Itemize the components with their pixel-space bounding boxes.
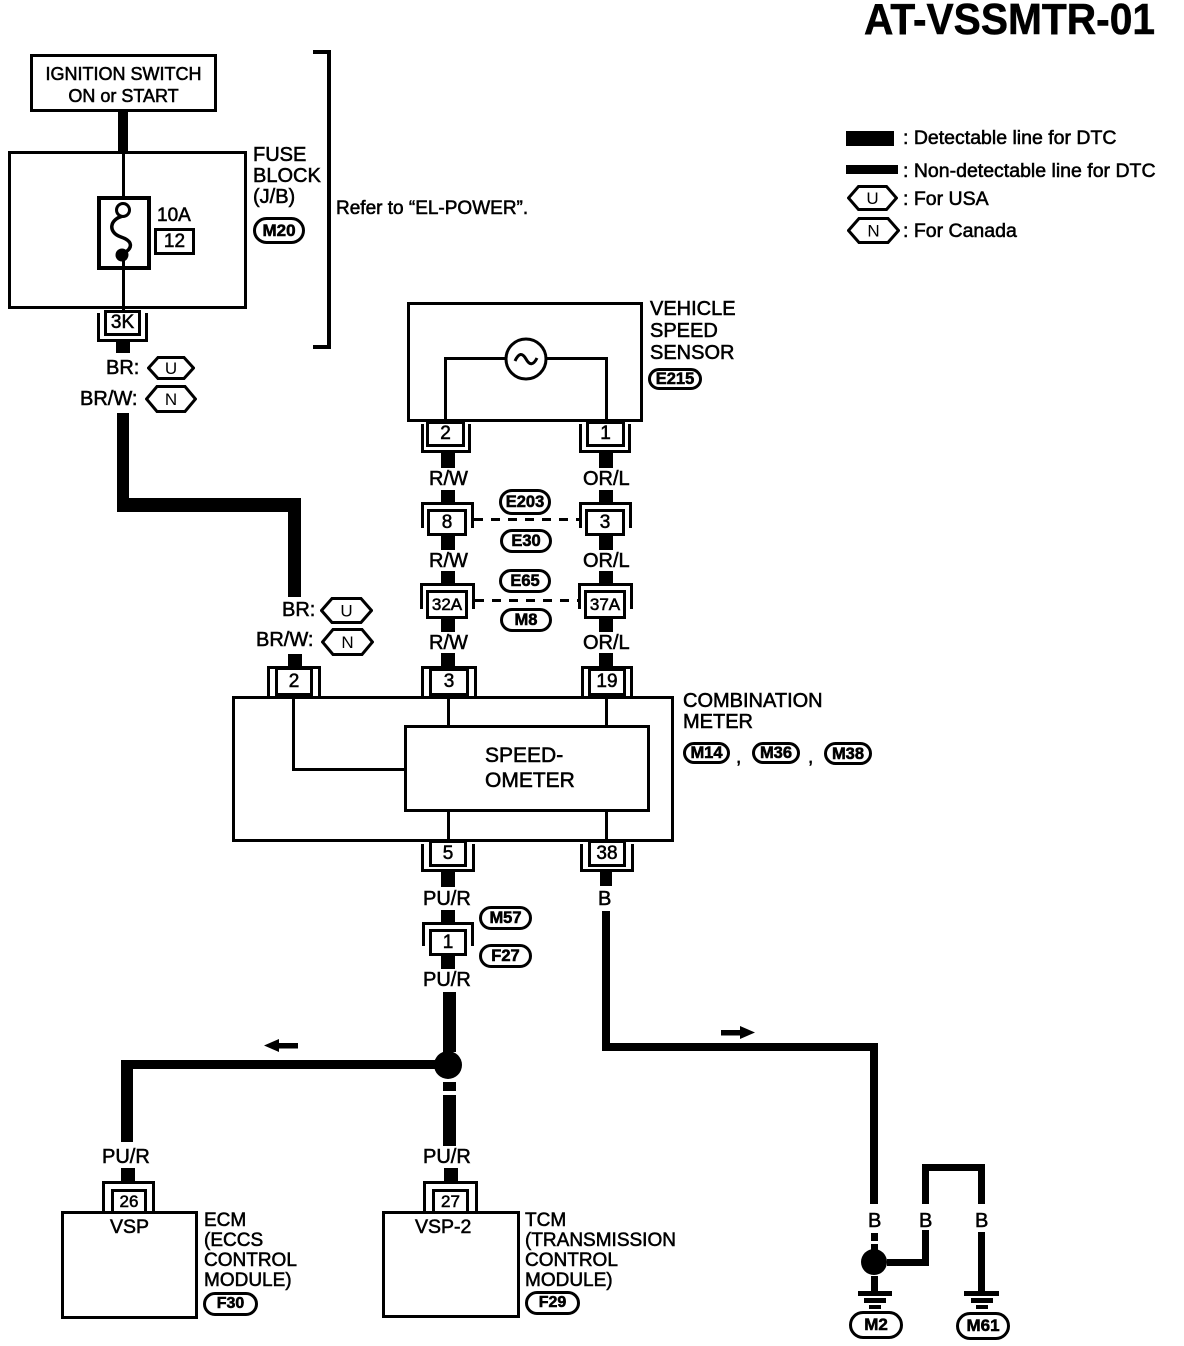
- wire stub below connector 32A: [441, 619, 455, 632]
- combination meter box: [232, 696, 674, 842]
- wire far right vertical upper: [978, 1171, 985, 1204]
- connector F30 oval: [203, 1292, 258, 1316]
- VSS internal wire right: [546, 357, 608, 360]
- label OR/L row2: [583, 551, 630, 571]
- wire BR/W horizontal elbow: [117, 498, 301, 512]
- connector 37A (E65/M8): [578, 583, 633, 609]
- wire PU/R trunk: [443, 992, 456, 1052]
- label B middle: [919, 1211, 932, 1231]
- svg-text:U: U: [866, 189, 878, 208]
- wire stub below connector 1: [441, 956, 455, 969]
- label R/W row2: [429, 551, 468, 571]
- label B right: [975, 1211, 988, 1231]
- svg-text:N: N: [867, 222, 879, 241]
- connector M8 oval: [500, 608, 552, 632]
- wire stub above pin 27: [444, 1168, 458, 1183]
- svg-text:N: N: [165, 390, 177, 409]
- note Refer to EL-POWER: [336, 199, 528, 219]
- label FUSE BLOCK (J/B): [253, 145, 321, 208]
- dashed link E65/M8: [475, 599, 578, 602]
- ground symbol M61: [964, 1291, 999, 1296]
- wire stub below connector 37A: [599, 619, 613, 632]
- wire ignition to fuse block (thick): [118, 112, 128, 152]
- label PU/R at TCM: [423, 1147, 471, 1167]
- wire dash below junction: [443, 1082, 456, 1091]
- connector F27 oval: [479, 944, 532, 968]
- label B left: [868, 1211, 881, 1231]
- fuse block M20 box: [8, 151, 247, 309]
- legend hexagon U: [847, 185, 898, 211]
- wire B vertical down to ground: [870, 1043, 878, 1204]
- arrow right: [719, 1026, 755, 1039]
- wire B horizontal: [602, 1043, 878, 1051]
- label VSP: [110, 1217, 149, 1237]
- ground junction node: [861, 1249, 887, 1275]
- speedometer box: [404, 725, 650, 812]
- wire dashes above junction: [871, 1233, 878, 1241]
- ground connector M2 oval: [849, 1311, 903, 1339]
- AC generator symbol: [503, 336, 549, 382]
- VSS internal wire left: [444, 357, 506, 360]
- legend non-detectable line: [846, 165, 898, 174]
- meter pin 19: [581, 666, 633, 696]
- wire stub above meter pin 3: [441, 653, 455, 667]
- wire pin2 to speedometer: [292, 696, 295, 771]
- ECM box: [61, 1211, 198, 1319]
- wire stub below pin 1: [599, 453, 613, 468]
- VSS pin 1: [579, 424, 631, 453]
- fuse number box 12: [154, 228, 195, 255]
- wire B from pin 38 down: [602, 911, 610, 1047]
- wire stub above meter pin 19: [599, 653, 613, 667]
- wire pin19 to speedometer: [605, 696, 608, 725]
- power source box IGNITION SWITCH: [30, 54, 217, 112]
- svg-text:N: N: [341, 633, 353, 652]
- label SPEED-OMETER: [485, 743, 575, 793]
- ECM pin 26: [102, 1181, 155, 1211]
- dashed link E203/E30: [474, 518, 579, 521]
- connector 3K: [97, 313, 148, 342]
- meter pin 3: [421, 666, 477, 696]
- connector E203 oval: [499, 489, 551, 515]
- wire stub above inline connector 1: [441, 910, 455, 924]
- wire speedometer to pin5: [447, 812, 450, 842]
- connector 32A (E65/M8): [420, 583, 475, 609]
- wire BR/W vertical (thick): [117, 413, 129, 505]
- bracket (refer note): [313, 50, 331, 349]
- label R/W row1: [429, 469, 468, 489]
- wire stub above connector 3: [599, 490, 613, 504]
- connector F29 oval: [525, 1291, 580, 1315]
- wire stub below pin 38 (B): [600, 872, 612, 886]
- hexagon N at meter: [321, 628, 374, 656]
- label B: [598, 889, 611, 909]
- wire right branch top horizontal: [922, 1164, 985, 1171]
- wire stub to meter pin 2: [288, 654, 302, 667]
- TCM pin 27: [423, 1181, 478, 1211]
- fuse 10A: [97, 196, 151, 270]
- comma: [808, 748, 813, 768]
- label VSP-2: [415, 1217, 471, 1237]
- TCM box: [382, 1211, 520, 1318]
- label PU/R: [423, 889, 471, 909]
- label ECM (ECCS CONTROL MODULE): [204, 1211, 297, 1291]
- ground connector M61 oval: [956, 1312, 1010, 1340]
- label OR/L row3: [583, 633, 630, 653]
- label 10A: [157, 206, 191, 226]
- wire stub below 3K: [116, 342, 130, 353]
- wire right branch vertical upper: [922, 1171, 929, 1204]
- svg-text:U: U: [340, 602, 352, 621]
- ground symbol M2: [858, 1291, 892, 1296]
- VSS pin 2: [421, 424, 471, 453]
- wire branch to ECM (horizontal): [121, 1060, 436, 1069]
- label PU/R below connector 1: [423, 970, 471, 990]
- wire pin3 to speedometer: [447, 696, 450, 725]
- wire junction to right branch: [887, 1259, 929, 1266]
- vehicle speed sensor box E215: [407, 302, 643, 422]
- label BR: (USA): [106, 358, 139, 378]
- label BR: at meter: [282, 600, 315, 620]
- wire stub above connector 8: [441, 490, 455, 504]
- wire stub below pin 2: [441, 453, 455, 468]
- wire junction to ground M2: [871, 1276, 878, 1291]
- connector M14 oval: [683, 742, 730, 764]
- label COMBINATION METER: [683, 691, 823, 733]
- connector E65 oval: [499, 569, 551, 593]
- wire into fuse: [122, 151, 125, 205]
- meter pin 2: [267, 666, 321, 696]
- arrow left: [264, 1039, 298, 1052]
- hexagon U at meter: [320, 597, 373, 624]
- label PU/R at ECM: [102, 1147, 150, 1167]
- connector 3 (E203/E30): [579, 502, 632, 528]
- hexagon N: [145, 385, 197, 413]
- title AT-VSSMTR-01: [864, 0, 1155, 42]
- legend detectable line: [846, 131, 894, 146]
- wire speedometer to pin38: [605, 812, 608, 842]
- wire right branch vertical lower: [922, 1230, 929, 1263]
- connector 8 (E203/E30): [421, 502, 474, 528]
- label BR/W: at meter: [256, 630, 313, 650]
- wire stub below connector 3: [599, 536, 613, 550]
- label TCM (TRANSMISSION CONTROL MODULE): [525, 1211, 676, 1291]
- wire stub above pin 26: [121, 1168, 135, 1183]
- connector M20 oval: [253, 217, 305, 244]
- wire stub above connector 32A: [441, 571, 455, 585]
- wire stub above connector 37A: [599, 571, 613, 585]
- svg-text:U: U: [165, 359, 177, 378]
- label BR/W: (Canada): [80, 389, 137, 409]
- wire stub below connector 8: [441, 536, 455, 550]
- inline connector 1 (M57/F27): [422, 922, 474, 946]
- label OR/L row1: [583, 469, 630, 489]
- wire BR/W vertical right: [288, 498, 301, 597]
- meter pin 5: [421, 844, 475, 872]
- connector M36 oval: [752, 742, 800, 764]
- wire fuse to block bottom: [122, 260, 125, 310]
- wire to TCM: [443, 1095, 456, 1146]
- connector M57 oval: [479, 906, 532, 930]
- connector E30 oval: [500, 529, 552, 553]
- junction node: [434, 1051, 462, 1079]
- wire far right vertical lower: [978, 1232, 985, 1291]
- label VEHICLE SPEED SENSOR: [650, 298, 736, 364]
- legend hexagon N: [847, 217, 900, 244]
- wire stub below pin 5: [441, 872, 455, 887]
- label R/W row3: [429, 633, 468, 653]
- hexagon U: [147, 356, 195, 380]
- connector M38 oval: [824, 742, 872, 765]
- comma: [736, 748, 741, 768]
- wire ECM branch vertical: [121, 1060, 133, 1142]
- meter pin 38: [580, 844, 634, 872]
- connector E215 oval: [648, 368, 702, 390]
